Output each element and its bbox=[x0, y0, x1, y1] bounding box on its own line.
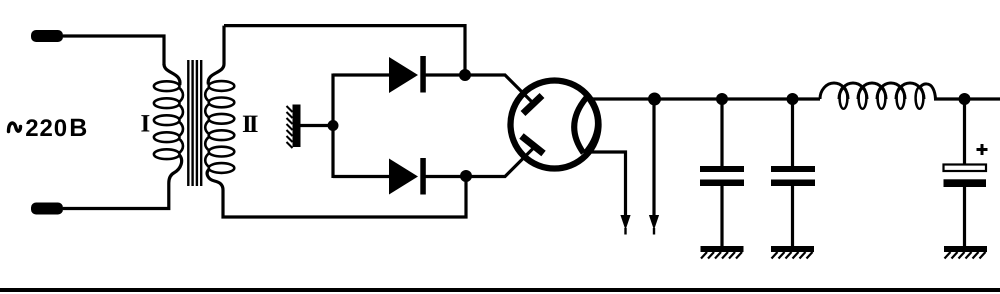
svg-text:II: II bbox=[242, 111, 258, 138]
svg-text:B: B bbox=[69, 114, 87, 142]
svg-text:220: 220 bbox=[25, 115, 68, 142]
svg-text:I: I bbox=[141, 111, 151, 138]
